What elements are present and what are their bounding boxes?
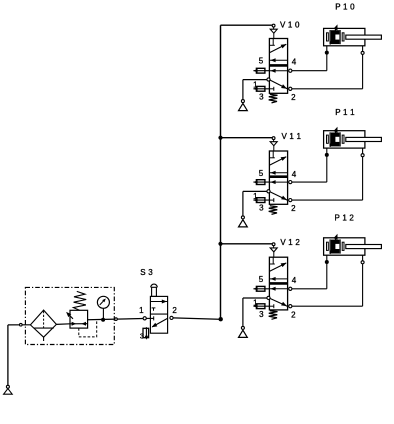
wire: valve S3 port 2 to riser junction <box>173 318 219 319</box>
wire: valve V1.2 port 2 to cylinder P1.2 rod side <box>292 255 364 306</box>
valve V1.2 (5/2 pilot valve, spring return) <box>253 243 297 320</box>
junction on riser for V1.1 <box>218 136 222 140</box>
junction: gauge stem on supply line <box>101 318 105 322</box>
cylinder P1.0 (double acting) <box>324 24 382 45</box>
label V1.2 <box>280 238 300 247</box>
wire: pilot line to valve V1.0 <box>221 24 273 26</box>
svg-text:P 1 1: P 1 1 <box>335 108 355 117</box>
wire: valve V1.1 port 2 to cylinder P1.1 rod side <box>292 148 364 200</box>
valve S3 (3/2 push-button valve) <box>139 284 177 341</box>
wire: valve V1.0 port 4 to cylinder P1.0 piston side <box>292 46 329 71</box>
service unit enclosure (dashed) <box>25 287 114 344</box>
svg-text:P 1 0: P 1 0 <box>335 2 355 11</box>
wire: filter to regulator <box>56 323 70 326</box>
regulator pilot feedback (dashed) <box>79 321 97 337</box>
air supply source for valve V1.2 <box>239 298 268 337</box>
svg-text:V 1 0: V 1 0 <box>280 20 300 29</box>
svg-text:1: 1 <box>139 306 144 315</box>
label V1.0 <box>280 20 300 29</box>
air supply source for valve V1.1 <box>239 191 268 227</box>
pressure regulator with relief <box>66 291 88 328</box>
cylinder P1.1 (double acting) <box>324 127 382 148</box>
label S3 <box>140 268 153 277</box>
svg-text:V 1 1: V 1 1 <box>281 132 301 141</box>
wire: valve V1.1 port 4 to cylinder P1.1 piston side <box>292 148 329 182</box>
label V1.1 <box>281 132 301 141</box>
svg-text:2: 2 <box>291 93 296 102</box>
label P1.2 <box>335 214 355 223</box>
svg-text:5: 5 <box>259 169 264 178</box>
label P1.1 <box>335 108 355 117</box>
wire: main signal riser <box>220 25 222 319</box>
svg-text:3: 3 <box>259 310 264 319</box>
svg-text:1: 1 <box>253 299 258 308</box>
filter with water separator <box>30 310 56 341</box>
svg-text:5: 5 <box>259 275 264 284</box>
valve V1.0 (5/2 pilot valve, spring return) <box>253 24 297 103</box>
svg-text:4: 4 <box>292 276 297 285</box>
wire: source to filter inlet <box>8 323 31 326</box>
svg-text:2: 2 <box>291 311 296 320</box>
label P1.0 <box>335 2 355 11</box>
cylinder P1.2 (double acting) <box>324 234 382 255</box>
valve V1.1 (5/2 pilot valve, spring return) <box>253 137 297 215</box>
junction on riser for V1.2 <box>218 242 222 246</box>
wire: regulator outlet to valve S3 port 1 <box>88 318 144 321</box>
svg-text:1: 1 <box>253 192 258 201</box>
svg-text:4: 4 <box>292 57 297 66</box>
svg-text:4: 4 <box>292 170 297 179</box>
svg-text:2: 2 <box>172 306 177 315</box>
wire: pilot line to valve V1.1 <box>221 137 273 139</box>
wire: valve V1.2 port 4 to cylinder P1.2 piston side <box>292 255 329 289</box>
svg-text:S 3: S 3 <box>140 268 153 277</box>
wire: pilot line to valve V1.2 <box>221 243 273 245</box>
pressure gauge <box>97 296 109 319</box>
svg-text:3: 3 <box>259 92 264 101</box>
svg-text:5: 5 <box>259 56 264 65</box>
svg-text:V 1 2: V 1 2 <box>280 238 300 247</box>
compressed air source (bottom left) <box>4 325 13 394</box>
wire: valve V1.0 port 2 to cylinder P1.0 rod side <box>292 46 364 89</box>
svg-text:3: 3 <box>259 204 264 213</box>
svg-text:1: 1 <box>253 80 258 89</box>
junction: supply line meets riser <box>219 317 223 321</box>
svg-text:P 1 2: P 1 2 <box>335 214 355 223</box>
svg-text:2: 2 <box>291 204 296 213</box>
air supply source for valve V1.0 <box>239 80 268 111</box>
svg-text:3: 3 <box>140 332 144 341</box>
